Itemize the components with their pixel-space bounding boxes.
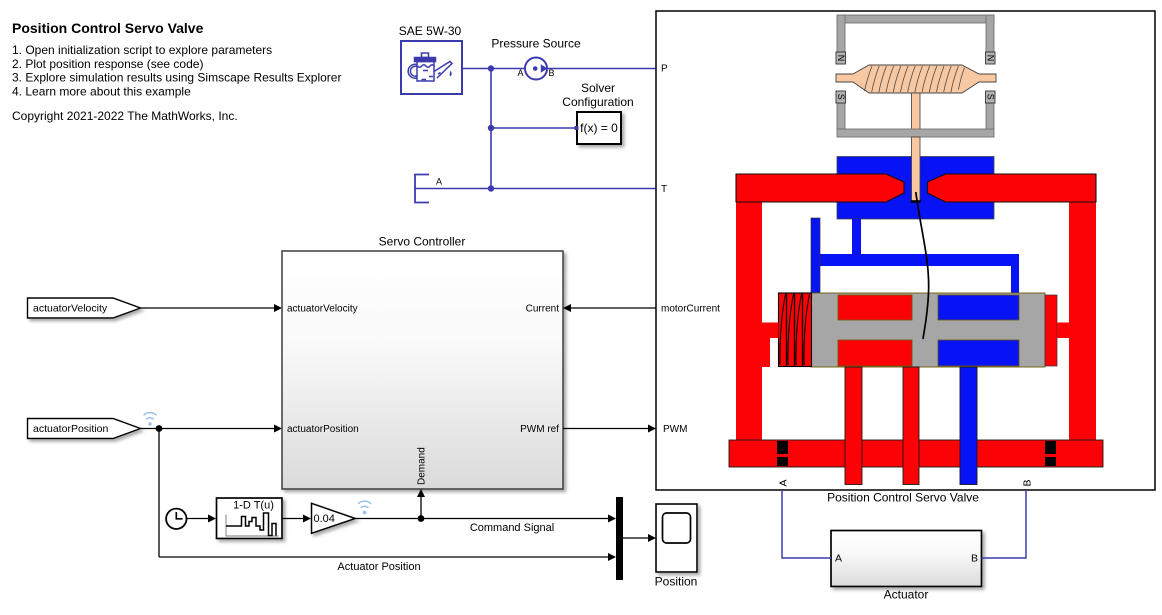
valve graphic: armature: [836, 65, 996, 93]
valve graphic: blue pipe stub from pilot block: [852, 219, 861, 255]
svg-text:Copyright 2021-2022 The MathWo: Copyright 2021-2022 The MathWorks, Inc.: [12, 109, 238, 123]
svg-text:B: B: [1022, 479, 1034, 486]
subsystem Position Control Servo Valve block body: [656, 11, 1155, 505]
wire bracket to valve port T: [415, 188, 656, 190]
valve graphic: blue delivery pipe: [960, 367, 977, 485]
svg-text:N: N: [986, 55, 996, 62]
lookup table 1-D T(u): [217, 498, 283, 539]
valve graphic: pilot blue block: [837, 157, 994, 220]
svg-text:PWM: PWM: [663, 424, 687, 435]
valve graphic: lower blue chamber: [938, 340, 1019, 366]
valve graphic: bottom port marks left: [777, 441, 788, 466]
block Solver Configuration f(x)=0: [562, 81, 633, 144]
subsystem Actuator: [831, 531, 982, 602]
svg-text:Position Control Servo Valve: Position Control Servo Valve: [827, 491, 979, 505]
valve graphic: red outer frame: [729, 174, 1103, 467]
svg-text:2. Plot position response (see: 2. Plot position response (see code): [12, 57, 203, 71]
valve graphic: spool sleeve: [811, 293, 1045, 367]
wire to solver configuration: [491, 127, 576, 129]
input actuatorVelocity: [28, 298, 141, 318]
valve graphic: right red stub to frame: [1057, 323, 1072, 339]
wireless logging icon on actuatorPosition: [144, 413, 157, 426]
wire valve A to actuator A: [782, 490, 831, 558]
wire SAE out to pressure source: [462, 68, 525, 70]
valve graphic: pole pieces S: [836, 91, 995, 103]
svg-text:Actuator Position: Actuator Position: [337, 561, 420, 573]
svg-text:B: B: [971, 553, 978, 565]
input actuatorPosition: [28, 419, 141, 439]
wire valve B to actuator B: [982, 490, 1027, 558]
svg-text:Actuator: Actuator: [884, 588, 929, 602]
svg-text:1. Open initialization script: 1. Open initialization script to explore…: [12, 43, 272, 57]
block SAE 5W-30 oil source: [399, 24, 462, 94]
component Pressure Source: [491, 37, 581, 80]
svg-text:A: A: [778, 479, 790, 486]
wire actuatorPosition down-branch: [158, 429, 160, 558]
mux: [616, 497, 623, 580]
valve graphic: left red stub to frame: [759, 323, 779, 339]
valve graphic: pole pieces N: [836, 52, 995, 64]
svg-text:S: S: [986, 94, 996, 100]
valve graphic: feedback flapper wire: [916, 192, 929, 339]
wire demand up into controller: [420, 497, 422, 519]
svg-text:SAE 5W-30: SAE 5W-30: [399, 24, 462, 38]
ground reservoir bracket A: [415, 175, 442, 203]
valve graphic: flapper stem upper: [912, 93, 921, 130]
junction node actuatorPosition branch: [156, 425, 163, 432]
valve graphic: blue left vertical pipe: [811, 218, 820, 293]
svg-text:A: A: [517, 68, 523, 78]
wire actuatorVelocity to controller: [141, 307, 275, 309]
svg-text:P: P: [661, 64, 668, 75]
svg-text:actuatorVelocity: actuatorVelocity: [33, 303, 108, 315]
wireless logging icon on gain output: [358, 501, 371, 514]
svg-text:f(x) = 0: f(x) = 0: [580, 121, 618, 135]
wire command signal: [355, 518, 609, 520]
svg-text:Current: Current: [526, 303, 560, 314]
svg-text:actuatorPosition: actuatorPosition: [287, 424, 359, 435]
svg-text:T: T: [661, 184, 667, 195]
gain 0.04: [312, 503, 356, 533]
svg-text:Demand: Demand: [417, 447, 428, 485]
svg-text:1-D T(u): 1-D T(u): [233, 500, 274, 512]
wire clock to lookup table: [187, 518, 209, 520]
valve graphic: right red end cap: [1045, 295, 1057, 366]
svg-text:Position Control Servo Valve: Position Control Servo Valve: [12, 20, 204, 36]
wire PWM ref controller to valve: [563, 428, 648, 430]
valve graphic: red drain pipe left: [845, 367, 862, 485]
svg-text:actuatorVelocity: actuatorVelocity: [287, 303, 358, 314]
valve graphic: upper blue chamber: [938, 295, 1019, 320]
clock source: [166, 509, 186, 529]
svg-text:Position: Position: [655, 575, 698, 589]
valve graphic: spring chamber: [779, 293, 812, 367]
svg-text:Command Signal: Command Signal: [470, 522, 554, 534]
junction node solver branch: [488, 125, 494, 131]
valve graphic: lower red chamber: [838, 340, 912, 366]
wire actuatorPosition to controller: [141, 428, 275, 430]
valve graphic: flapper anchor bar: [911, 200, 921, 203]
svg-text:B: B: [548, 68, 554, 78]
svg-text:A: A: [436, 177, 442, 187]
annotation step list: [12, 43, 341, 99]
wire motorCurrent valve to controller: [571, 307, 656, 309]
valve graphic: upper red chamber: [838, 295, 912, 320]
junction node top of trunk: [488, 65, 494, 71]
wire lookup to gain: [282, 518, 303, 520]
junction node T line: [488, 185, 494, 191]
wire mux to scope: [623, 537, 648, 539]
valve graphic: right nozzle supply band: [928, 174, 1097, 202]
svg-text:0.04: 0.04: [314, 513, 335, 525]
svg-text:actuatorPosition: actuatorPosition: [33, 423, 108, 435]
wire actuator position to mux: [159, 556, 608, 558]
svg-text:A: A: [835, 553, 842, 565]
svg-text:motorCurrent: motorCurrent: [661, 303, 720, 314]
junction node demand branch: [418, 515, 425, 522]
valve graphic: red drain pipe mid: [903, 367, 919, 485]
valve graphic: torque motor frame: [837, 15, 994, 129]
svg-text:3. Explore simulation results: 3. Explore simulation results using Sims…: [12, 71, 341, 85]
svg-text:Pressure Source: Pressure Source: [491, 37, 581, 51]
valve graphic: pole letters: [836, 55, 996, 100]
svg-text:N: N: [836, 55, 846, 62]
valve graphic: blue right vertical pipe: [1011, 262, 1019, 293]
wire pressure source B to valve port P: [547, 68, 656, 70]
svg-text:Servo Controller: Servo Controller: [379, 235, 466, 249]
scope Position: [655, 504, 698, 589]
svg-text:Solver: Solver: [581, 81, 615, 95]
subsystem Servo Controller: [282, 235, 563, 490]
valve graphic: left frame inner step: [759, 338, 770, 367]
valve graphic: torque motor bottom bar: [837, 129, 994, 137]
wire trunk vertical: [490, 69, 492, 189]
svg-text:PWM ref: PWM ref: [520, 424, 559, 435]
valve graphic: bottom port marks right: [1045, 441, 1056, 466]
valve graphic: blue horizontal pipe: [820, 254, 1019, 266]
svg-text:4. Learn more about this examp: 4. Learn more about this example: [12, 85, 191, 99]
valve graphic: flapper stem lower: [912, 137, 921, 202]
svg-text:S: S: [836, 94, 846, 100]
svg-text:Configuration: Configuration: [562, 95, 633, 109]
valve graphic: left nozzle supply band: [736, 174, 904, 202]
